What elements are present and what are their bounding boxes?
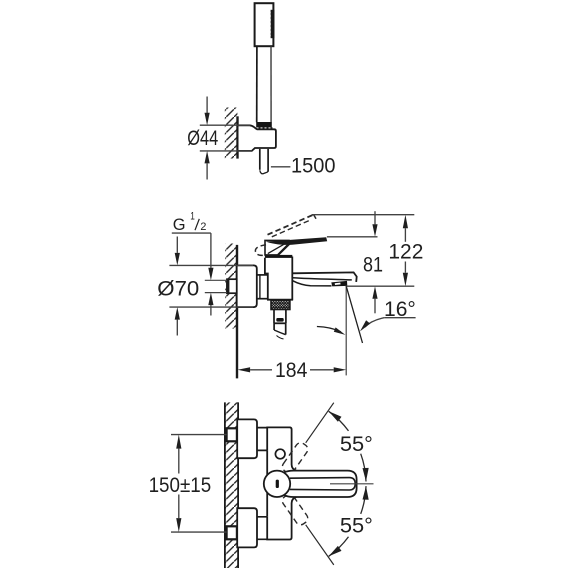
svg-text:81: 81 <box>363 253 383 276</box>
svg-text:122: 122 <box>388 240 423 263</box>
svg-text:55°: 55° <box>340 433 373 456</box>
svg-text:Ø44: Ø44 <box>187 127 218 150</box>
svg-text:150±15: 150±15 <box>149 474 212 497</box>
svg-text:1500: 1500 <box>291 155 336 178</box>
svg-text:55°: 55° <box>340 514 373 537</box>
svg-text:G: G <box>173 216 186 234</box>
svg-text:184: 184 <box>275 359 307 382</box>
svg-text:2: 2 <box>200 221 206 233</box>
svg-text:1: 1 <box>190 211 195 223</box>
svg-text:Ø70: Ø70 <box>157 278 199 301</box>
